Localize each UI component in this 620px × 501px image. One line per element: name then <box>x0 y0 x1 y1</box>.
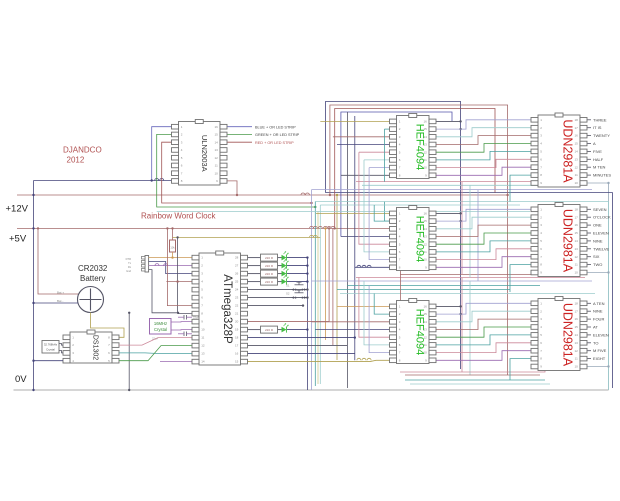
wire band teal to UDN1 pin8 <box>510 175 531 201</box>
wire HEF2 out7 to UDN2 <box>436 257 531 268</box>
wire UDN2 out lead 1 <box>587 208 591 210</box>
svg-text:26: 26 <box>235 272 239 276</box>
wire UDN3 out lead 4 <box>587 326 591 328</box>
svg-text:11: 11 <box>201 336 204 340</box>
wire HEF2 out3 to UDN2 <box>436 225 531 236</box>
wire band1 lteal long low <box>157 210 530 212</box>
svg-text:25: 25 <box>235 280 239 284</box>
wire J1 pin2 to pin3 jog <box>149 262 192 274</box>
junction arc2 +5V <box>334 227 336 229</box>
wire HEF2 wrap feed 4 <box>374 205 389 221</box>
wire HEF3 wrap feed 4 <box>374 294 389 315</box>
wire UDN3 out lead 8 <box>587 358 591 360</box>
junction R1 reset <box>171 256 173 258</box>
wire top arc maroon 2 <box>335 109 495 229</box>
LED D4 green <box>282 279 287 285</box>
IC U2 ULN2003A <box>172 120 228 186</box>
switch S2 <box>295 292 304 294</box>
svg-text:TWO: TWO <box>593 262 602 267</box>
svg-text:21: 21 <box>235 312 239 316</box>
wire ATmega VCC <box>167 228 192 305</box>
wire LED row 4 <box>248 281 261 283</box>
svg-text:HEF4094: HEF4094 <box>414 216 426 262</box>
junction R1 +5V <box>171 227 173 229</box>
wire ATmega pin4 maroon <box>166 281 192 283</box>
wire UDN3 out lead 7 <box>587 350 591 352</box>
wire +12V rail <box>17 194 508 196</box>
wire left vertical maroon battery <box>38 228 79 294</box>
wire HEF3 out1 to UDN3 <box>436 303 531 314</box>
wire DS1302 pin4 ground <box>34 360 64 362</box>
svg-text:DS1302: DS1302 <box>92 335 99 360</box>
svg-text:+5V: +5V <box>9 234 27 245</box>
svg-text:Bat -: Bat - <box>57 299 63 303</box>
wire BLUE LED strip lead <box>227 126 252 128</box>
wire band drop 4 <box>461 278 463 373</box>
wire UDN3 out lead 6 <box>587 342 591 344</box>
svg-text:16MHz: 16MHz <box>154 321 167 326</box>
svg-text:20: 20 <box>235 320 239 324</box>
wire X2 pin2 <box>59 344 63 346</box>
svg-text:TWENTY: TWENTY <box>593 133 610 138</box>
svg-text:FIVE: FIVE <box>593 149 602 154</box>
svg-text:NINE: NINE <box>593 238 603 243</box>
junction ULN pin9 +12V <box>236 194 238 196</box>
svg-text:A: A <box>593 141 596 146</box>
wire ATmega pin14 purple <box>160 361 192 363</box>
wire right edge navy <box>326 193 613 388</box>
junction UDN1 right rail <box>607 182 609 184</box>
wire band3 lteal <box>410 383 550 385</box>
junction orange +5V <box>324 227 326 229</box>
resistor LED row 1 220R <box>261 254 278 261</box>
wire band drop 5 <box>469 281 471 375</box>
svg-text:15: 15 <box>235 360 239 364</box>
wire band2 teal b <box>337 289 510 291</box>
wire HEF1 wrap feed 2 <box>364 159 390 161</box>
IC U5 HEF4094 #3 <box>390 299 437 364</box>
resistor R1 10k pullup <box>170 240 176 252</box>
wire HEF1 out2 to UDN1 <box>436 128 531 137</box>
wire UDN2 out lead 3 <box>587 224 591 226</box>
wire LED row 1 <box>248 257 261 259</box>
wire UDN2 out lead 2 <box>587 216 591 218</box>
svg-text:23: 23 <box>235 296 239 300</box>
wire band1 lteal2 <box>320 204 520 206</box>
wire lteal vertical <box>319 205 321 384</box>
svg-text:A TEN: A TEN <box>593 301 605 306</box>
wire olive HEF1 strobe <box>320 120 389 122</box>
svg-text:M TEN: M TEN <box>593 165 605 170</box>
svg-text:24: 24 <box>235 288 239 292</box>
wire row pin20 avcc <box>248 321 330 323</box>
svg-text:2012: 2012 <box>67 156 85 165</box>
svg-text:Battery: Battery <box>80 274 105 283</box>
wire UDN1 out lead 2 <box>587 127 591 129</box>
wire HEF2 out4 to UDN2 <box>436 233 531 244</box>
svg-text:220 R: 220 R <box>265 264 274 268</box>
svg-text:11: 11 <box>215 164 218 168</box>
IC U7 UDN2981A #2 <box>531 203 587 277</box>
wire UDN3 out lead 5 <box>587 334 591 336</box>
wire HEF1 out7 to UDN1 <box>436 167 531 175</box>
svg-text:19: 19 <box>235 328 239 332</box>
wire HEF3 out2 to UDN3 <box>436 311 531 322</box>
connector J1 serial header <box>145 256 149 273</box>
wire HEF1 out1 to UDN1 <box>436 120 531 129</box>
wire orange vertical <box>324 228 326 340</box>
wire hops decorations <box>310 226 314 228</box>
svg-text:RED + OR LED STRIP: RED + OR LED STRIP <box>255 141 294 145</box>
wire LED row 5 <box>248 329 261 331</box>
wire ULN pin2 green <box>157 134 316 207</box>
wire maroon vertical b <box>332 228 334 345</box>
svg-text:SEVEN: SEVEN <box>593 207 607 212</box>
wire row pin18 <box>248 337 355 339</box>
svg-text:220 R: 220 R <box>265 272 274 276</box>
wire ULN pin9 to +12V <box>227 181 237 195</box>
switch S1 <box>295 284 304 286</box>
wire UDN1 out lead 6 <box>587 158 591 160</box>
svg-text:13: 13 <box>214 148 218 152</box>
wire row pin17 <box>248 345 348 347</box>
svg-text:ONE: ONE <box>593 223 602 228</box>
resistor LED row 3 220R <box>261 270 278 277</box>
wire battery to DS1302 Vcc1 <box>91 313 125 338</box>
svg-text:13: 13 <box>201 352 205 356</box>
battery B1 symbol <box>78 287 104 313</box>
resistor LED row 4 220R <box>261 278 278 285</box>
junction HEF2 pin15 bus <box>459 220 461 222</box>
wire UDN1 pin9 right <box>587 182 609 184</box>
svg-text:M FIVE: M FIVE <box>593 348 607 353</box>
svg-text:220 R: 220 R <box>265 328 274 332</box>
IC U8 UDN2981A #3 <box>531 297 587 371</box>
junction DS pin4 <box>32 360 34 362</box>
resistor LED row 5 220R <box>261 326 278 333</box>
wire UDN2 out lead 4 <box>587 232 591 234</box>
svg-text:Gnd: Gnd <box>126 269 131 273</box>
wire DS1302 vertical to 0V <box>128 313 130 390</box>
LED D3 green <box>282 271 287 277</box>
wire navy LED bus vertical <box>306 258 308 390</box>
junction UDN2 right rail <box>607 271 609 273</box>
wire HEF1 pin2 teal wrap <box>384 128 389 130</box>
svg-text:UDN2981A: UDN2981A <box>561 209 575 273</box>
wire band2 maroon <box>400 274 560 276</box>
LED D2 green <box>282 263 287 269</box>
wire HEF2 pin8 row <box>355 266 390 268</box>
wire UDN2 out lead 8 <box>587 264 591 266</box>
wire band drop 2 <box>469 185 471 277</box>
wire teal HEF2 pin2 <box>384 202 389 222</box>
wire HEF2 out5 to UDN2 <box>436 241 531 252</box>
svg-text:HEF4094: HEF4094 <box>414 309 426 355</box>
svg-text:18: 18 <box>235 336 239 340</box>
svg-text:CR2032: CR2032 <box>78 264 108 273</box>
crystal X1 16MHz box <box>150 319 172 335</box>
wire HEF1 out3 to UDN1 <box>436 136 531 145</box>
wire band teal to UDN3 pin8 <box>510 359 531 380</box>
svg-text:TWELVE: TWELVE <box>593 246 609 251</box>
svg-text:220 R: 220 R <box>265 280 274 284</box>
resistor LED row 2 220R <box>261 262 278 269</box>
svg-text:ULN2003A: ULN2003A <box>200 135 209 172</box>
wire X2 pin3 <box>59 351 63 353</box>
svg-text:10k: 10k <box>170 246 175 250</box>
junction 177.6 olive <box>176 236 178 238</box>
junction GND crystal <box>177 312 179 314</box>
wire DS1302 CE to ATmega <box>119 338 192 346</box>
svg-text:S2: S2 <box>286 292 290 296</box>
wire navy HEF1 clock <box>337 144 390 146</box>
wire DS1302 SCLK to ATmega <box>119 346 192 361</box>
svg-text:17: 17 <box>235 344 239 348</box>
wire HEF1 wrap feed 3 <box>369 167 389 169</box>
svg-text:12: 12 <box>214 156 218 160</box>
wire maroon HEF2 data +5V <box>389 227 390 229</box>
junction red lavender <box>310 202 312 204</box>
junction VCC +5V <box>166 227 168 229</box>
junction HEF3 pin15 bus <box>459 313 461 315</box>
junction pin4 <box>176 280 178 282</box>
wire olive dtr row <box>173 236 321 238</box>
wire band2 teal a <box>347 285 540 287</box>
wire row pin16 <box>248 353 355 355</box>
svg-text:16: 16 <box>235 352 239 356</box>
svg-text:0V: 0V <box>15 374 27 385</box>
wire HEF3 out7 to UDN3 <box>436 351 531 361</box>
junction blue navy <box>151 179 153 181</box>
svg-text:TO: TO <box>593 340 598 345</box>
wire J1 pin4 gnd <box>149 270 192 314</box>
svg-text:220 R: 220 R <box>265 256 274 260</box>
wire band2 lteal2 <box>340 293 595 295</box>
wire band teal to UDN2 pin8 <box>510 265 531 292</box>
wire +5V rail <box>17 227 389 229</box>
wire R1 top <box>172 228 174 240</box>
wire HEF2 wrap feed 3 <box>369 190 389 260</box>
wire band3 maroon <box>405 374 540 376</box>
svg-text:27: 27 <box>235 264 239 268</box>
svg-text:16: 16 <box>214 125 218 129</box>
wire GREEN LED strip lead <box>227 133 252 135</box>
svg-text:10: 10 <box>214 171 218 175</box>
wire UDN2 out lead 5 <box>587 240 591 242</box>
junction navy +12V <box>32 194 34 196</box>
svg-text:DTR: DTR <box>126 257 131 261</box>
wire ULN pin3 red <box>162 142 312 203</box>
svg-text:MINUTES: MINUTES <box>593 173 611 178</box>
wire HEF1 out6 to UDN1 <box>436 159 531 167</box>
wire X1 XTAL1 <box>171 321 192 323</box>
wire band2 pink <box>356 277 585 279</box>
IC U3 HEF4094 #1 <box>390 114 437 179</box>
svg-text:HEF4094: HEF4094 <box>414 124 426 170</box>
wire olive vertical <box>336 195 338 360</box>
wire R1 bottom <box>172 252 174 258</box>
wire band2 lavender <box>312 280 593 282</box>
wire HEF1 wrap feed 1 <box>359 151 390 153</box>
junction arc1 +12V right <box>506 194 508 196</box>
wire switch row 1 <box>248 289 308 291</box>
wire band drop 3 <box>477 190 479 281</box>
svg-text:12: 12 <box>201 344 205 348</box>
wire UDN3 out lead 2 <box>587 310 591 312</box>
junction DS vertical 0V <box>128 389 130 391</box>
svg-text:32.768kHz: 32.768kHz <box>44 343 58 347</box>
junction green teal <box>314 206 316 208</box>
wire switch row 2 <box>248 297 308 299</box>
wire top arc navy <box>326 102 461 370</box>
wire top arc blue 4 <box>341 112 452 237</box>
wire UDN1 out lead 1 <box>587 119 591 121</box>
wire HEF2 out1 to UDN2 <box>436 209 531 221</box>
wire band3 pink <box>400 371 545 372</box>
wire LED row 3 <box>248 273 261 275</box>
wire HEF1 pin8 row <box>341 174 390 176</box>
svg-text:10: 10 <box>201 328 205 332</box>
IC U6 UDN2981A #1 <box>531 113 587 187</box>
wire orange HEF3 strobe <box>337 305 390 307</box>
wire J1 pin1 reset <box>149 257 192 259</box>
IC U8 DS1302 <box>63 330 119 363</box>
wire maroon HEF1 data <box>333 136 390 138</box>
wire DS1302 IO to ATmega <box>119 352 192 355</box>
svg-text:AT: AT <box>593 325 598 330</box>
svg-text:14: 14 <box>201 360 205 364</box>
wire lavender vertical <box>311 190 313 390</box>
wire top arc maroon 1 <box>330 105 508 375</box>
wire UDN3 out lead 1 <box>587 302 591 304</box>
wire band1 teal long <box>315 202 608 391</box>
wire ULN pin1 blue <box>152 127 172 181</box>
wire maroon HEF3 data <box>312 321 390 323</box>
svg-text:SIX: SIX <box>593 254 600 259</box>
wire HEF2 wrap feed 2 <box>364 185 390 252</box>
wire left vertical navy <box>33 181 35 391</box>
wire navy vertical 355 <box>354 116 356 360</box>
wire UDN1 out lead 3 <box>587 135 591 137</box>
LED D5 green <box>282 327 287 333</box>
wire pale yellow vertical <box>317 211 319 384</box>
wire dark vertical 177.6 <box>177 237 179 312</box>
wire HEF3 pin16 to bus <box>436 305 461 307</box>
wire UDN2 pin9 right <box>587 272 609 274</box>
wire HEF3 wrap feed 3 <box>369 286 389 353</box>
wire HEF3 wrap feed 1 <box>359 278 390 338</box>
wire HEF2 out2 to UDN2 <box>436 217 531 229</box>
wire band1 lteal <box>362 184 578 186</box>
wire band1 pink <box>356 181 585 183</box>
svg-text:Bat +: Bat + <box>57 291 64 295</box>
wire HEF2 wrap feed 1 <box>359 182 390 245</box>
wire ULN pin8 ground <box>34 180 172 182</box>
junction navy 0V <box>32 389 34 391</box>
svg-text:BLUE + OR LED STRIP: BLUE + OR LED STRIP <box>255 125 296 129</box>
svg-text:HALF: HALF <box>593 157 604 162</box>
svg-text:IT IS: IT IS <box>593 125 602 130</box>
wire HEF3 out4 to UDN3 <box>436 327 531 337</box>
wire band drop 1 <box>461 182 463 275</box>
svg-text:Rainbow Word Clock: Rainbow Word Clock <box>141 212 217 221</box>
wire X1 XTAL2 <box>171 329 192 331</box>
svg-text:15: 15 <box>214 133 218 137</box>
junction maroon +5V <box>37 227 39 229</box>
IC U1 ATmega328P <box>192 251 248 365</box>
wire HEF3 out6 to UDN3 <box>436 343 531 353</box>
wire HEF1 out5 to UDN1 <box>436 151 531 160</box>
wire HEF2 out6 to UDN2 <box>436 249 531 260</box>
wire band1 lavender <box>312 189 593 191</box>
svg-text:UDN2981A: UDN2981A <box>561 119 575 183</box>
svg-text:22: 22 <box>235 304 239 308</box>
wire UDN1 out lead 8 <box>587 174 591 176</box>
wire maroon vertical a <box>328 228 330 321</box>
svg-text:+12V: +12V <box>6 204 29 215</box>
junction UDN3 right rail <box>607 365 609 367</box>
wire UDN1 out lead 4 <box>587 143 591 145</box>
battery negative lead <box>34 302 79 304</box>
capacitor C2 22pF <box>183 332 185 337</box>
svg-text:14: 14 <box>214 140 218 144</box>
wire band3 teal <box>405 379 545 381</box>
crystal X2 32kHz box <box>42 341 59 354</box>
junction HEF1 pin15 bus <box>459 128 461 130</box>
svg-text:FOUR: FOUR <box>593 317 604 322</box>
wire LED row 2 <box>248 265 261 267</box>
wire UDN2 out lead 6 <box>587 248 591 250</box>
wire HEF1 out4 to UDN1 <box>436 144 531 153</box>
svg-text:ELEVEN: ELEVEN <box>593 332 609 337</box>
svg-text:EIGHT: EIGHT <box>593 356 606 361</box>
svg-text:S1: S1 <box>286 284 290 288</box>
wire RED LED strip lead <box>227 141 252 143</box>
wire row pin22 <box>248 305 304 307</box>
capacitor C1 22pF <box>183 315 185 320</box>
svg-text:NINE: NINE <box>593 309 603 314</box>
svg-text:DJANDCO: DJANDCO <box>63 146 102 155</box>
wire dark vertical <box>346 112 348 388</box>
wire UDN3 pin9 right <box>587 366 609 368</box>
svg-text:O'CLOCK: O'CLOCK <box>593 215 611 220</box>
wire HEF2 pin16 to bus <box>436 212 461 214</box>
wire UDN3 out lead 3 <box>587 318 591 320</box>
wire HEF3 wrap feed 2 <box>364 281 390 345</box>
svg-text:28: 28 <box>235 256 239 260</box>
svg-text:THREE: THREE <box>593 117 607 122</box>
wire UDN1 out lead 5 <box>587 150 591 152</box>
wire HEF3 out3 to UDN3 <box>436 319 531 329</box>
svg-text:ATmega328P: ATmega328P <box>221 274 233 344</box>
wire J1 pin3 rxd purple <box>149 265 192 267</box>
wire HEF3 out5 to UDN3 <box>436 335 531 345</box>
svg-text:GREEN + OR LED STRIP: GREEN + OR LED STRIP <box>255 133 300 137</box>
junction maroon-a +5V <box>328 227 330 229</box>
junction DS vertical top <box>128 312 130 314</box>
wire teal vertical <box>314 202 316 387</box>
svg-text:ELEVEN: ELEVEN <box>593 231 609 236</box>
wire UDN1 out lead 7 <box>587 166 591 168</box>
wire maroon cascade row2 to row3 <box>400 252 402 301</box>
wire olive HEF2 strobe <box>316 212 390 214</box>
svg-text:Crystal: Crystal <box>154 327 167 332</box>
wire navy HEF3 clock <box>315 329 389 331</box>
LED D1 green <box>282 255 287 261</box>
junction olive +12V <box>336 194 338 196</box>
wire row pin15 to HEF3 pin8 <box>248 360 390 361</box>
svg-text:Crystal: Crystal <box>46 348 55 352</box>
